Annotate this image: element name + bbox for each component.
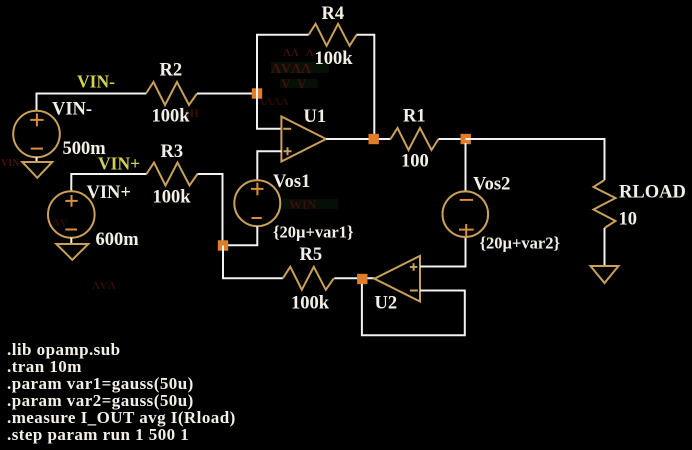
wire [37, 94, 147, 112]
wire [326, 138, 391, 140]
svg-text:V V: V V [281, 76, 307, 91]
wire [223, 226, 257, 245]
ground (VIN-) [22, 162, 52, 178]
svg-text:ΛΛ: ΛΛ [283, 47, 299, 59]
svg-text:VIN-: VIN- [77, 72, 115, 92]
svg-text:R2: R2 [160, 61, 183, 81]
svg-text:Vos1: Vos1 [273, 172, 310, 192]
node junction J3 [218, 240, 228, 250]
wire [466, 139, 605, 180]
svg-text:VIN: VIN [1, 158, 20, 169]
svg-text:100k: 100k [153, 188, 192, 208]
svg-text:Λ: Λ [306, 47, 314, 59]
wire [36, 157, 38, 162]
voltage source VIN- [13, 111, 60, 158]
svg-text:100k: 100k [315, 49, 354, 69]
wire [257, 94, 282, 129]
svg-text:{20µ+var1}: {20µ+var1} [273, 223, 354, 242]
svg-text:RLOAD: RLOAD [619, 183, 686, 203]
node junction J1 [252, 88, 262, 98]
wire [70, 238, 72, 244]
svg-text:Vos2: Vos2 [473, 175, 510, 195]
wire [257, 35, 309, 94]
wire [198, 174, 223, 246]
wire [420, 237, 466, 267]
resistor R3 [147, 163, 198, 186]
node junction J2 [369, 134, 379, 144]
svg-text:R4: R4 [322, 4, 345, 24]
wire [604, 228, 606, 266]
resistor R5 [283, 267, 334, 290]
wire [197, 93, 257, 95]
node junction J4 [357, 274, 367, 284]
resistor R1 [391, 128, 439, 150]
wire [334, 277, 374, 279]
voltage source VIN+ [48, 191, 95, 238]
svg-text:100k: 100k [291, 294, 330, 314]
svg-text:.step param run 1 500 1: .step param run 1 500 1 [7, 425, 189, 444]
svg-text:ΛVΛΛ: ΛVΛΛ [271, 62, 311, 77]
op-amp U2 [374, 256, 420, 302]
op-amp U1 [281, 117, 326, 162]
svg-text:10: 10 [619, 210, 638, 230]
voltage source Vos2 [443, 143, 489, 237]
ground (RLOAD) [591, 266, 619, 283]
svg-text:100: 100 [401, 152, 429, 172]
svg-text:{20µ+var2}: {20µ+var2} [480, 234, 561, 253]
wire [439, 138, 466, 140]
svg-text:VIN+: VIN+ [98, 154, 140, 174]
resistor R2 [146, 82, 197, 105]
resistor RLOAD [594, 180, 616, 228]
wire [71, 174, 146, 191]
wire [257, 151, 281, 180]
svg-text:VIN-: VIN- [52, 99, 92, 119]
svg-text:R1: R1 [403, 107, 426, 127]
svg-text:ΛVΛ: ΛVΛ [92, 280, 116, 292]
svg-text:U1: U1 [304, 107, 327, 127]
wire [223, 246, 283, 279]
wire [357, 35, 375, 139]
svg-text:WIN: WIN [289, 197, 317, 212]
voltage source Vos1 [234, 180, 280, 226]
svg-text:U2: U2 [375, 294, 398, 314]
wire [362, 284, 465, 335]
svg-text:ΛV: ΛV [52, 217, 68, 229]
node junction J5 [461, 134, 471, 144]
svg-text:VIN+: VIN+ [87, 183, 131, 203]
svg-text:100k: 100k [152, 107, 191, 127]
svg-text:R5: R5 [300, 245, 323, 265]
resistor R4 [309, 24, 357, 46]
ground (VIN+) [56, 244, 88, 260]
svg-text:600m: 600m [96, 230, 140, 250]
svg-text:R3: R3 [161, 142, 184, 162]
